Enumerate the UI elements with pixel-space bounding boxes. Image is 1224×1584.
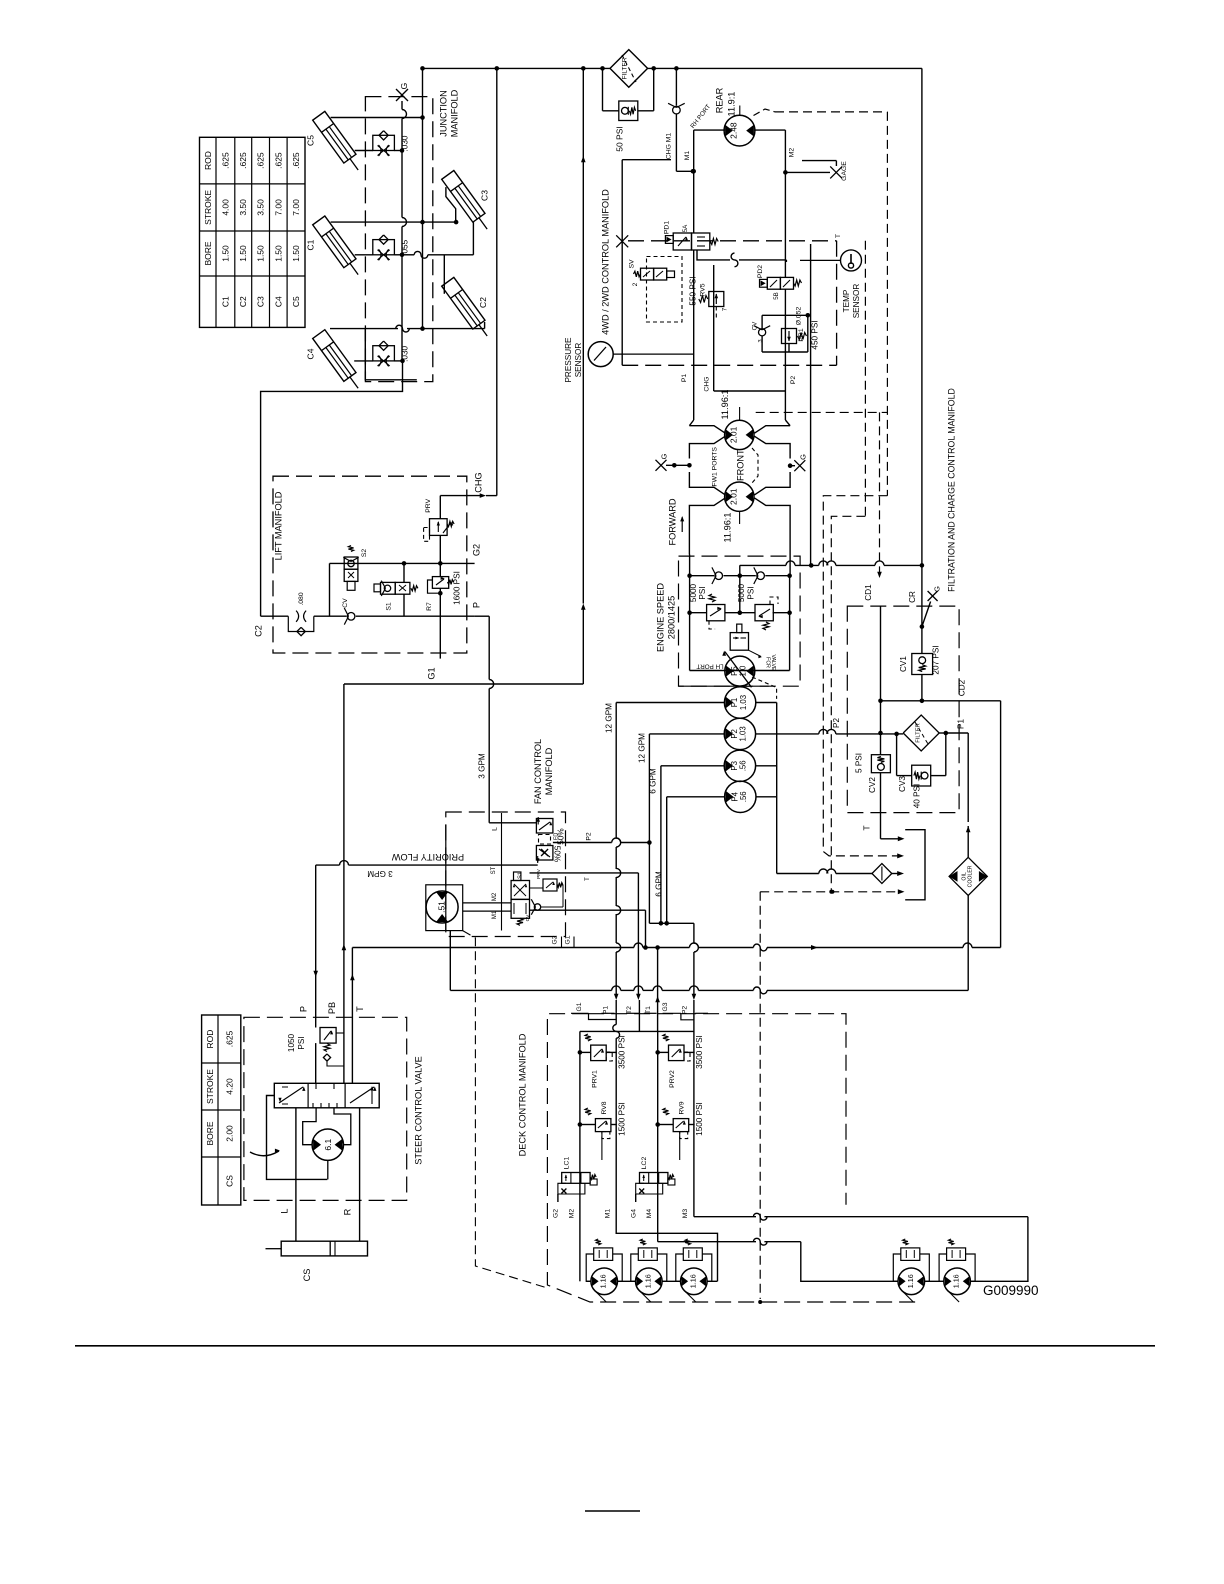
steer feedback link — [267, 1096, 328, 1180]
svg-text:1.50: 1.50 — [238, 245, 248, 262]
svg-text:CV3: CV3 — [898, 776, 907, 792]
svg-text:G1: G1 — [565, 935, 572, 944]
svg-text:FILTER: FILTER — [916, 723, 922, 743]
deck control manifold boundary — [518, 892, 920, 1304]
wire wheel motor chain left — [586, 1280, 717, 1282]
svg-text:G4: G4 — [630, 1209, 637, 1218]
svg-text:4WD / 2WD CONTROL MANIFOLD: 4WD / 2WD CONTROL MANIFOLD — [601, 189, 611, 335]
check valve wheel motor at 911 — [893, 1239, 929, 1281]
wire pump suction bus — [756, 703, 872, 874]
svg-text:FRONT: FRONT — [736, 449, 746, 481]
wheel motor 3 1.16 — [681, 1268, 708, 1302]
wire REAR motor left port M1 — [684, 130, 725, 233]
wire main return line to CD2 — [352, 943, 1000, 951]
svg-text:G: G — [399, 83, 409, 90]
wire C4 bypass loop — [365, 329, 417, 380]
solenoid valve S2 — [343, 546, 368, 591]
wire charge line CHG M1 with check valve — [666, 68, 696, 173]
wire engine box bottom — [679, 685, 769, 687]
svg-text:P2: P2 — [585, 832, 592, 841]
wire C5 rod line — [331, 115, 425, 120]
svg-text:.625: .625 — [238, 152, 248, 169]
pump P1 1.03 — [724, 687, 755, 718]
svg-text:REAR: REAR — [714, 87, 724, 113]
valve PD2 solenoid — [757, 265, 801, 300]
dashed swash link P5 to P1 — [752, 677, 777, 699]
4WD 2WD control manifold boundary — [601, 160, 837, 366]
svg-text:S1: S1 — [386, 602, 393, 611]
svg-text:VALVE: VALVE — [770, 655, 776, 671]
svg-text:SV: SV — [629, 259, 636, 269]
svg-text:PD2: PD2 — [757, 265, 764, 278]
wire junction to lift C2 line — [261, 361, 403, 616]
motor fan .51 — [426, 885, 463, 931]
svg-text:CD2: CD2 — [958, 679, 967, 696]
wire steer L R lines — [280, 1108, 360, 1241]
motor FRONT upper 2.01 — [720, 390, 754, 450]
svg-text:3500 PSI: 3500 PSI — [617, 1035, 626, 1069]
port G left front — [656, 453, 692, 470]
svg-text:G1: G1 — [427, 667, 437, 679]
svg-text:2.01: 2.01 — [728, 426, 738, 443]
svg-text:5A: 5A — [682, 224, 689, 232]
svg-text:MANIFOLD: MANIFOLD — [450, 89, 460, 137]
svg-text:PRIORITY FLOW: PRIORITY FLOW — [392, 852, 465, 862]
svg-text:C4: C4 — [306, 348, 316, 359]
relief valve RV5 550 PSI — [689, 276, 729, 318]
svg-text:6 GPM: 6 GPM — [649, 768, 658, 794]
svg-text:.625: .625 — [220, 152, 230, 169]
tank header — [905, 830, 925, 900]
svg-text:P2: P2 — [790, 376, 797, 385]
wire ports G4 M3 — [630, 1194, 689, 1218]
svg-text:P2: P2 — [730, 729, 739, 739]
pressure reducing valve R7 1600 PSI — [426, 571, 462, 611]
deck port G3 notch — [662, 1002, 694, 1020]
port G junction — [396, 83, 409, 101]
dashed drain manifold right — [829, 241, 865, 894]
wire steer PB line — [327, 684, 346, 1017]
svg-text:CS: CS — [224, 1175, 234, 1187]
motor FRONT lower 2.01 — [722, 482, 754, 542]
wire fan ST pilot — [491, 813, 502, 931]
svg-text:P1: P1 — [730, 698, 739, 708]
svg-text:R7: R7 — [426, 602, 433, 611]
fan relief valve — [525, 868, 563, 921]
svg-text:PSI: PSI — [297, 1036, 306, 1049]
cylinder C4 — [313, 330, 365, 393]
wire fan motor to valve — [463, 903, 511, 911]
wire T line 4wd to charge manifold — [811, 234, 842, 565]
svg-text:1.16: 1.16 — [688, 1274, 697, 1288]
svg-text:3500 PSI: 3500 PSI — [695, 1035, 704, 1069]
svg-text:1600 PSI: 1600 PSI — [453, 571, 462, 605]
svg-text:.56: .56 — [739, 791, 748, 802]
wire deck T1 line — [645, 948, 660, 1032]
wire P2 line 4wd — [785, 289, 797, 420]
wire front motors right loop — [754, 420, 790, 576]
svg-text:STROKE: STROKE — [205, 1069, 215, 1104]
svg-text:CHG: CHG — [473, 472, 483, 492]
orifice check .055 C1 — [373, 235, 410, 260]
check valve CV lift — [342, 598, 355, 625]
svg-text:G2: G2 — [552, 935, 559, 944]
svg-text:T: T — [585, 877, 591, 881]
svg-text:3.50: 3.50 — [238, 199, 248, 216]
svg-text:S2: S2 — [361, 549, 368, 558]
svg-text:M3: M3 — [682, 1209, 689, 1219]
wire PD1 to PD2 link — [697, 250, 786, 267]
wire lift P to fan L port 3 GPM — [478, 616, 537, 823]
check valve CV 4wd — [752, 315, 786, 352]
check valve wheel motor at 604 — [586, 1239, 622, 1281]
gerotor 6.1 — [303, 1108, 351, 1180]
cylinder C2 — [442, 277, 494, 340]
svg-text:P2: P2 — [832, 718, 841, 728]
svg-text:C2: C2 — [254, 625, 264, 637]
horizontal rule — [75, 1345, 1155, 1347]
wire wheel motor chain right — [893, 1280, 983, 1282]
svg-text:CHG: CHG — [704, 376, 711, 391]
engine speed box dashed — [656, 556, 801, 686]
check valve wheel motor at 957 — [939, 1239, 975, 1281]
wheel motor 2 1.16 — [636, 1268, 663, 1302]
valve PD1 solenoid — [664, 221, 719, 250]
wire REAR motor right port M2 — [754, 130, 796, 277]
svg-text:CV2: CV2 — [868, 777, 877, 793]
svg-text:3 GPM: 3 GPM — [367, 869, 393, 878]
svg-text:P1: P1 — [681, 374, 688, 383]
svg-text:G: G — [799, 454, 808, 460]
svg-text:1.50: 1.50 — [273, 245, 283, 262]
svg-text:ROD: ROD — [205, 1030, 215, 1049]
relief valve 5000 PSI right — [737, 583, 778, 630]
wire S2 to CV line — [329, 563, 331, 615]
wire junction manifold gallery — [402, 101, 407, 361]
svg-text:PSI: PSI — [747, 586, 756, 599]
svg-text:.625: .625 — [256, 152, 266, 169]
wire top charge bus — [420, 66, 922, 71]
svg-text:1.16: 1.16 — [643, 1274, 652, 1288]
deck port ticks — [602, 1012, 709, 1014]
cylinder C1 — [313, 216, 365, 279]
deck port G1 notch — [571, 1002, 616, 1019]
port X mark on manifold boundary — [616, 235, 628, 247]
svg-text:TEMP: TEMP — [842, 289, 851, 312]
svg-text:PRV: PRV — [425, 498, 432, 512]
svg-text:40 PSI: 40 PSI — [913, 784, 922, 809]
svg-text:C2: C2 — [478, 297, 488, 308]
svg-text:FORWARD: FORWARD — [667, 498, 677, 545]
wire fan P2 port line — [553, 832, 650, 842]
svg-text:2800/1425: 2800/1425 — [667, 596, 677, 639]
svg-text:T: T — [355, 1006, 365, 1012]
port G right front — [788, 454, 808, 471]
wire C4 rod line — [330, 325, 485, 332]
svg-text:7: 7 — [722, 307, 729, 311]
svg-text:1050: 1050 — [287, 1033, 296, 1052]
svg-text:C1: C1 — [220, 296, 230, 307]
svg-text:.51: .51 — [437, 901, 447, 913]
wire steer T return line — [350, 948, 365, 1018]
svg-text:G009990: G009990 — [983, 1283, 1039, 1298]
svg-text:M2: M2 — [492, 892, 498, 901]
svg-text:12 GPM: 12 GPM — [638, 733, 647, 763]
svg-text:P4: P4 — [730, 791, 739, 801]
wire lift bottom main line — [261, 602, 490, 616]
svg-text:1.50: 1.50 — [291, 245, 301, 262]
svg-text:11.96:1: 11.96:1 — [722, 513, 732, 543]
svg-text:ST: ST — [491, 866, 497, 874]
svg-text:PSI: PSI — [698, 586, 707, 599]
svg-text:G3: G3 — [662, 1002, 669, 1011]
wire charge to pump loop — [740, 561, 924, 568]
wire T return to header — [863, 825, 905, 841]
relief valve PRV1 3500 PSI — [578, 1034, 627, 1088]
check valve CV2 5 PSI — [855, 734, 891, 833]
table cylinder bore/stroke/rod — [200, 137, 306, 327]
wire lift G2 line — [330, 544, 482, 566]
pressure sensor — [564, 337, 694, 383]
wire CD1 solid line — [878, 606, 883, 735]
wheel motor 4 1.16 — [898, 1268, 925, 1302]
oil cooler — [949, 857, 987, 895]
svg-text:BORE: BORE — [205, 1121, 215, 1145]
temp sensor — [800, 250, 862, 318]
charge filter symbol — [903, 715, 968, 751]
svg-text:LC1: LC1 — [563, 1157, 570, 1170]
svg-text:1500 PSI: 1500 PSI — [695, 1102, 704, 1136]
check valve CV1 207 PSI — [899, 645, 940, 703]
steer relief 1050 PSI — [287, 1017, 352, 1083]
svg-text:CHG M1: CHG M1 — [666, 133, 673, 160]
pump P3 .56 — [724, 750, 755, 781]
logic valve LC1 — [558, 1157, 597, 1194]
svg-text:.625: .625 — [273, 152, 283, 169]
dashed case drain from rear motor — [754, 109, 905, 858]
orifice check .030 C4 — [373, 341, 410, 366]
svg-text:RV9: RV9 — [679, 1101, 686, 1114]
dashed fan case drain — [463, 931, 548, 1288]
wire C2 port lines — [444, 255, 484, 329]
junction manifold boundary — [365, 89, 459, 381]
svg-text:3.50: 3.50 — [256, 199, 266, 216]
label deck T2 port — [626, 1000, 639, 1031]
svg-text:PR1: PR1 — [798, 328, 805, 341]
pump loop inner box — [687, 555, 792, 671]
svg-text:PRV1: PRV1 — [591, 1070, 598, 1088]
svg-text:5000: 5000 — [689, 583, 698, 602]
svg-text:5 PSI: 5 PSI — [855, 753, 864, 773]
svg-text:1.50: 1.50 — [256, 245, 266, 262]
svg-text:C5: C5 — [306, 135, 316, 146]
steer cylinder CS — [266, 1241, 368, 1281]
svg-text:3: 3 — [758, 339, 764, 342]
svg-text:6 GPM: 6 GPM — [655, 871, 664, 897]
wire pump P4 6 GPM — [655, 797, 725, 926]
wire deck M1 route — [616, 1202, 717, 1281]
wire pump P2 12 GPM to fan and deck P2 — [638, 733, 725, 1202]
svg-text:FW1 PORTS: FW1 PORTS — [712, 447, 719, 487]
wire deck M3 route — [694, 1202, 1028, 1281]
orifice check .030 C5 — [373, 131, 410, 156]
svg-text:50%: 50% — [553, 846, 562, 862]
wire lift CHG port — [440, 68, 497, 518]
svg-text:STEER CONTROL VALVE: STEER CONTROL VALVE — [414, 1056, 424, 1165]
wire steer P supply — [299, 865, 319, 1017]
svg-text:FCR: FCR — [765, 657, 771, 668]
wire CD1 dashed down — [864, 412, 882, 600]
svg-text:PB: PB — [327, 1002, 337, 1014]
wheel motor 5 1.16 — [944, 1268, 971, 1302]
footer tick — [585, 1510, 640, 1512]
svg-text:P5: P5 — [730, 666, 739, 676]
wire deck M4 route — [658, 1202, 898, 1281]
relief valve PRV2 3500 PSI — [655, 1034, 704, 1088]
svg-text:2.48: 2.48 — [729, 122, 739, 139]
wire M1 port line to manifold corner — [622, 159, 671, 161]
wire left bus from top bus — [422, 68, 424, 328]
svg-text:CV1: CV1 — [899, 656, 908, 672]
svg-text:M2: M2 — [789, 148, 796, 158]
svg-text:1.16: 1.16 — [906, 1274, 915, 1288]
fan control manifold boundary — [446, 739, 566, 937]
svg-text:FAN CONTROL: FAN CONTROL — [533, 739, 543, 804]
check valve CV3 40 PSI — [897, 733, 946, 808]
check valve wheel motor at 649 — [631, 1239, 667, 1281]
svg-text:3 GPM: 3 GPM — [478, 753, 487, 779]
svg-text:LH PORT: LH PORT — [696, 662, 723, 669]
check valve right pump loop — [757, 572, 765, 580]
table steer cylinder bore/stroke/rod — [202, 1015, 241, 1205]
svg-text:1.16: 1.16 — [599, 1274, 608, 1288]
charge filter — [610, 50, 648, 88]
pilot dashed box around SV — [647, 257, 683, 323]
svg-text:.56: .56 — [739, 760, 748, 771]
check valve left pump loop — [715, 572, 723, 580]
svg-text:7.00: 7.00 — [291, 199, 301, 216]
svg-text:P2: P2 — [682, 1006, 689, 1015]
wire C4 cap line — [354, 359, 405, 364]
svg-text:PRV: PRV — [536, 868, 542, 879]
wire lift P line vertical — [427, 535, 443, 679]
svg-text:12 GPM: 12 GPM — [605, 703, 614, 733]
svg-text:RV8: RV8 — [601, 1101, 608, 1114]
relief valve RV8 1500 PSI — [578, 1101, 627, 1160]
wire pump P1 12 GPM to deck — [603, 703, 725, 1203]
svg-text:S1: S1 — [517, 872, 523, 879]
svg-text:LC2: LC2 — [641, 1157, 648, 1170]
svg-text:50 PSI: 50 PSI — [615, 126, 625, 152]
svg-text:M4: M4 — [646, 1209, 653, 1219]
svg-text:MANIFOLD: MANIFOLD — [544, 747, 554, 795]
wire fan T G lines — [530, 873, 646, 1000]
svg-text:JUNCTION: JUNCTION — [439, 90, 449, 136]
svg-text:P1: P1 — [957, 719, 966, 729]
svg-text:4.20: 4.20 — [224, 1078, 234, 1095]
svg-text:FILTER: FILTER — [622, 57, 629, 79]
wire C5 cap line — [355, 148, 405, 153]
svg-text:R: R — [343, 1208, 353, 1215]
svg-text:11.96:1: 11.96:1 — [720, 390, 730, 420]
svg-text:1.03: 1.03 — [739, 695, 748, 710]
svg-text:L: L — [492, 827, 499, 831]
svg-text:4.00: 4.00 — [220, 199, 230, 216]
relief valve PRV lift — [424, 498, 455, 541]
svg-text:SENSOR: SENSOR — [574, 343, 583, 378]
svg-text:PD1: PD1 — [664, 221, 671, 234]
wire CD2 line — [881, 679, 1001, 947]
svg-text:G: G — [660, 453, 669, 459]
svg-text:C4: C4 — [273, 296, 283, 307]
svg-text:CV: CV — [342, 598, 349, 608]
svg-text:CD1: CD1 — [864, 584, 873, 601]
wire C3 port lines — [446, 187, 474, 255]
wire pump P3 6 GPM — [649, 766, 725, 926]
relief valve RV9 1500 PSI — [655, 1101, 704, 1160]
svg-text:G: G — [933, 586, 942, 592]
svg-text:G2: G2 — [553, 1209, 560, 1218]
svg-text:ROD: ROD — [203, 151, 213, 170]
svg-text:M2: M2 — [568, 1209, 575, 1219]
wire ports G2 M1 — [553, 1194, 612, 1218]
svg-text:5B: 5B — [773, 292, 780, 300]
wire right bus down to charge manifold — [921, 68, 923, 565]
svg-text:PRV2: PRV2 — [669, 1070, 676, 1088]
dashed drain to header — [760, 889, 904, 894]
svg-text:2: 2 — [632, 282, 639, 286]
svg-text:CS: CS — [302, 1269, 312, 1282]
svg-text:1.03: 1.03 — [739, 726, 748, 741]
pump P5 variable piston — [696, 651, 755, 688]
svg-text:207 PSI: 207 PSI — [931, 645, 940, 674]
wire M2 gauge stub — [785, 161, 847, 181]
svg-text:5000: 5000 — [737, 583, 746, 602]
svg-text:LIFT MANIFOLD: LIFT MANIFOLD — [274, 491, 284, 560]
wire lift G1 to filter bus riser — [344, 68, 586, 684]
svg-text:C3: C3 — [480, 190, 490, 201]
svg-text:C1: C1 — [306, 239, 316, 250]
logic valve LC2 — [636, 1157, 675, 1194]
svg-text:1.16: 1.16 — [952, 1274, 961, 1288]
solenoid valve S1 — [374, 563, 418, 615]
svg-text:2.00: 2.00 — [224, 1125, 234, 1142]
steering wheel arc — [250, 1149, 280, 1156]
cylinder C3 — [442, 170, 494, 233]
servo FCR valve — [730, 624, 776, 671]
pump P2 1.03 — [724, 718, 755, 749]
svg-text:CR: CR — [908, 591, 917, 603]
wire front motors left loop — [689, 420, 725, 555]
svg-text:CV: CV — [525, 914, 531, 921]
svg-text:STROKE: STROKE — [203, 190, 213, 225]
svg-text:PRESSURE: PRESSURE — [564, 337, 573, 383]
wire CR line — [908, 565, 942, 653]
svg-text:M1: M1 — [604, 1209, 611, 1219]
svg-text:1500 PSI: 1500 PSI — [617, 1102, 626, 1136]
steer control valve boundary — [244, 1017, 424, 1200]
svg-text:C5: C5 — [291, 296, 301, 307]
wire priority flow line 3 GPM — [316, 852, 538, 878]
fan solenoid valve — [492, 872, 530, 925]
check valve wheel motor at 694 — [676, 1239, 712, 1281]
suction diffuser diamond — [872, 864, 904, 884]
svg-text:L: L — [280, 1208, 290, 1213]
filtration manifold boundary — [847, 388, 959, 812]
lift manifold boundary — [273, 476, 467, 653]
steer valve body — [274, 1083, 379, 1108]
svg-text:450 PSI: 450 PSI — [811, 320, 820, 349]
